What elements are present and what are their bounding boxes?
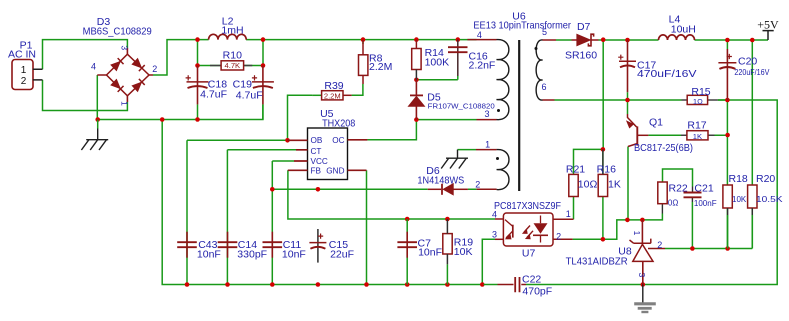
svg-text:D5: D5 bbox=[427, 92, 441, 104]
svg-text:R17: R17 bbox=[687, 119, 706, 131]
aux phase dot bbox=[496, 157, 499, 160]
wire U7 pin2 net jog bbox=[573, 214, 663, 240]
transformer U6 primary winding bbox=[497, 40, 509, 120]
secondary phase dot bbox=[535, 47, 538, 50]
svg-text:VCC: VCC bbox=[311, 157, 328, 166]
transformer U6 aux winding bbox=[497, 150, 509, 190]
svg-text:100nF: 100nF bbox=[694, 199, 717, 208]
svg-text:1: 1 bbox=[566, 209, 571, 219]
optocoupler U7 bbox=[503, 213, 553, 246]
svg-text:1: 1 bbox=[120, 101, 130, 106]
svg-text:1N4148WS: 1N4148WS bbox=[417, 175, 464, 187]
wire left gnd drop to bottom rail bbox=[162, 120, 187, 285]
svg-text:10Ω: 10Ω bbox=[578, 179, 598, 191]
wire A with C43 to bottom rail bbox=[186, 140, 188, 284]
wire P1 pin1 to bridge AC top bbox=[43, 40, 128, 70]
wire C18 branch vertical bbox=[197, 40, 199, 120]
svg-text:220uF/16V: 220uF/16V bbox=[734, 68, 770, 77]
wire VCC stub bbox=[294, 160, 308, 162]
capacitor C19 bbox=[262, 66, 264, 105]
wire FB stub bbox=[288, 169, 308, 171]
wire R8 R39 link bbox=[352, 84, 363, 95]
capacitor C7 bbox=[406, 219, 408, 285]
svg-text:R20: R20 bbox=[756, 173, 775, 185]
wire C20 R18 branch bbox=[726, 40, 728, 249]
wire U5 GND stub bbox=[348, 169, 367, 171]
svg-text:1K: 1K bbox=[693, 132, 702, 141]
svg-text:10K: 10K bbox=[732, 195, 747, 204]
svg-text:OC: OC bbox=[332, 136, 344, 145]
wire C21 bottom bbox=[691, 202, 693, 249]
svg-text:100K: 100K bbox=[425, 56, 450, 68]
resistor R21 bbox=[569, 174, 578, 196]
wire top rail L2 to transformer pin4 bbox=[246, 39, 476, 41]
resistor R10 bbox=[221, 61, 244, 70]
wire R8 top bbox=[362, 40, 364, 44]
wire snubber bottom link bbox=[416, 76, 457, 80]
wire C21 link to R22 bbox=[663, 169, 693, 187]
svg-text:6: 6 bbox=[541, 82, 546, 92]
svg-text:C20: C20 bbox=[738, 56, 757, 68]
resistor R14 bbox=[412, 49, 421, 70]
svg-text:BC817-25(6B): BC817-25(6B) bbox=[634, 142, 693, 154]
capacitor C11 bbox=[271, 232, 273, 258]
svg-text:FB: FB bbox=[311, 167, 322, 176]
wire aux pin1 stub bbox=[458, 149, 477, 151]
wire Q1 base row bbox=[648, 134, 727, 136]
wire CT net bbox=[227, 150, 296, 285]
svg-text:1K: 1K bbox=[608, 179, 621, 191]
resistor R16 bbox=[598, 174, 607, 196]
svg-text:R39: R39 bbox=[324, 80, 343, 92]
resistor R18 bbox=[723, 185, 732, 208]
svg-text:10nF: 10nF bbox=[197, 249, 221, 261]
svg-text:330pF: 330pF bbox=[237, 249, 267, 261]
earth ground primary bbox=[97, 129, 99, 140]
wire pin6 stub bbox=[543, 99, 555, 101]
svg-text:470pF: 470pF bbox=[522, 286, 552, 298]
svg-text:2: 2 bbox=[475, 180, 480, 190]
svg-text:2: 2 bbox=[21, 76, 27, 87]
svg-text:OB: OB bbox=[311, 136, 323, 145]
signal ground bbox=[642, 285, 644, 304]
svg-text:R16: R16 bbox=[597, 163, 616, 175]
svg-text:3: 3 bbox=[637, 272, 647, 277]
op-amp U5 THX208 controller bbox=[308, 128, 348, 180]
svg-text:1: 1 bbox=[21, 65, 27, 76]
resistor R17 bbox=[687, 131, 708, 140]
wire switch node to pin3 bbox=[416, 119, 476, 121]
wire R15 leads bbox=[682, 99, 718, 101]
transistor Q1 bbox=[636, 126, 638, 145]
svg-text:SR160: SR160 bbox=[565, 50, 597, 62]
wire VCC D6 row bbox=[272, 188, 476, 190]
svg-text:4.7K: 4.7K bbox=[224, 61, 240, 70]
wire pin3 stub bbox=[477, 119, 497, 121]
wire U8 ref stub bbox=[651, 248, 665, 250]
svg-text:2.2M: 2.2M bbox=[324, 91, 341, 100]
capacitor C21 bbox=[684, 193, 702, 198]
wire REF row bbox=[665, 248, 752, 250]
capacitor C17 bbox=[627, 40, 629, 92]
svg-text:MB6S_C108829: MB6S_C108829 bbox=[83, 25, 152, 37]
wire U7 pin1 stub bbox=[553, 218, 574, 220]
earth ground aux bbox=[457, 150, 459, 159]
svg-text:4.7uF: 4.7uF bbox=[236, 89, 263, 101]
svg-text:10.5K: 10.5K bbox=[756, 195, 783, 204]
connector P1 bbox=[12, 60, 33, 90]
svg-text:Q1: Q1 bbox=[649, 116, 663, 128]
transformer U6 secondary winding bbox=[536, 40, 542, 100]
svg-text:2.2M: 2.2M bbox=[369, 61, 392, 73]
capacitor C20 bbox=[726, 49, 728, 100]
wire pin5 stub bbox=[543, 39, 557, 41]
svg-text:10nF: 10nF bbox=[282, 249, 306, 261]
svg-text:470uF/16V: 470uF/16V bbox=[637, 68, 697, 80]
wire R20 branch bbox=[751, 40, 753, 249]
svg-text:C21: C21 bbox=[694, 183, 713, 195]
wire R16 bottom bbox=[602, 197, 604, 240]
svg-text:U7: U7 bbox=[522, 248, 536, 260]
wire bottom rail right of C22 bbox=[526, 100, 777, 285]
wire aux pin2 stub bbox=[477, 188, 497, 190]
capacitor C15 bbox=[317, 229, 319, 263]
diode D5 bbox=[415, 80, 417, 120]
wire bottom rail bbox=[187, 284, 484, 286]
wire R10 leads bbox=[198, 65, 264, 67]
svg-text:GND: GND bbox=[326, 167, 344, 176]
capacitor C22 bbox=[484, 284, 498, 286]
wire Q1 collector drop bbox=[627, 147, 629, 220]
wire R18 R20 bottoms bbox=[728, 215, 753, 249]
wire bridge right vertex to top rail bbox=[153, 40, 209, 75]
diode D7 bbox=[572, 39, 578, 41]
inductor L2 bbox=[209, 34, 247, 39]
wire CT stub bbox=[296, 149, 308, 151]
diode D6 bbox=[428, 188, 441, 190]
wire U7 pin1 net R21 riser bbox=[574, 149, 603, 219]
transformer core bbox=[518, 40, 520, 191]
resistor R22 bbox=[658, 182, 667, 204]
wire VCC net bbox=[272, 161, 294, 285]
svg-text:2: 2 bbox=[657, 240, 662, 250]
wire Q1 emitter link bbox=[627, 100, 629, 114]
svg-text:AC IN: AC IN bbox=[8, 48, 36, 60]
svg-text:2: 2 bbox=[152, 64, 157, 74]
svg-text:D7: D7 bbox=[577, 21, 591, 33]
svg-text:4: 4 bbox=[91, 62, 96, 72]
wire C21 leads bbox=[691, 187, 693, 203]
resistor R15 bbox=[687, 95, 707, 104]
svg-text:THX208: THX208 bbox=[322, 117, 355, 129]
svg-text:1: 1 bbox=[632, 231, 642, 236]
svg-text:1Ω: 1Ω bbox=[693, 97, 703, 106]
svg-text:4: 4 bbox=[492, 210, 497, 220]
svg-text:3: 3 bbox=[120, 45, 130, 50]
wire bridge left vertex down bbox=[96, 75, 98, 120]
wire FB net bbox=[288, 170, 495, 219]
svg-text:TL431AIDBZR: TL431AIDBZR bbox=[566, 256, 628, 268]
wire secondary top rail bbox=[556, 39, 768, 41]
wire U7 pin3 net bbox=[482, 239, 495, 284]
junction dots bbox=[95, 117, 100, 122]
svg-text:2: 2 bbox=[556, 232, 561, 242]
svg-text:22uF: 22uF bbox=[330, 249, 354, 261]
bridge rectifier D3 bbox=[126, 48, 128, 102]
wire R22 bottom lead bbox=[661, 204, 663, 214]
svg-text:3: 3 bbox=[484, 109, 489, 119]
svg-text:PC817X3NSZ9F: PC817X3NSZ9F bbox=[494, 200, 561, 212]
svg-text:R21: R21 bbox=[566, 163, 585, 175]
svg-text:10nF: 10nF bbox=[418, 247, 442, 259]
svg-text:5: 5 bbox=[542, 27, 547, 37]
svg-text:1: 1 bbox=[485, 140, 490, 150]
svg-text:+5V: +5V bbox=[757, 18, 779, 32]
wire U7 pin2 stub bbox=[553, 238, 573, 240]
resistor R20 bbox=[748, 185, 757, 208]
svg-text:0Ω: 0Ω bbox=[668, 199, 678, 208]
wire pin4 stub bbox=[467, 39, 496, 41]
svg-text:C22: C22 bbox=[522, 274, 541, 286]
wire OC net bbox=[367, 120, 416, 140]
capacitor C14 bbox=[227, 232, 229, 258]
resistor R8 bbox=[359, 55, 368, 76]
svg-text:R10: R10 bbox=[223, 50, 242, 62]
svg-text:4: 4 bbox=[477, 30, 482, 40]
wire rail1 DC minus bbox=[98, 104, 263, 119]
net flag +5V bbox=[763, 31, 774, 40]
wire R17 leads bbox=[681, 134, 715, 136]
wire U5 GND net bbox=[366, 170, 368, 284]
svg-text:R18: R18 bbox=[729, 173, 748, 185]
wire OB stub bbox=[288, 139, 308, 141]
shunt regulator U8 TL431 bbox=[641, 220, 643, 243]
svg-text:2.2nF: 2.2nF bbox=[469, 60, 496, 72]
wire pin6 row bbox=[555, 99, 728, 101]
primary phase dot bbox=[497, 109, 500, 112]
wire U7 pin3 stub bbox=[495, 238, 503, 240]
wire R39 left lead bbox=[312, 94, 322, 96]
svg-text:1mH: 1mH bbox=[221, 24, 243, 36]
inductor L4 bbox=[659, 35, 695, 40]
resistor R39 bbox=[322, 91, 343, 100]
wire C19 branch vertical bbox=[262, 40, 264, 120]
wire P1 pin2 to bridge AC bottom bbox=[43, 80, 128, 111]
svg-text:10K: 10K bbox=[454, 246, 473, 258]
capacitor C16 bbox=[457, 40, 459, 76]
wire OC stub bbox=[348, 139, 368, 141]
wire D7 net vertical bbox=[602, 40, 604, 175]
svg-text:4.7uF: 4.7uF bbox=[200, 89, 227, 101]
capacitor C43 bbox=[186, 232, 188, 258]
svg-text:10uH: 10uH bbox=[671, 23, 696, 35]
wire OB net bbox=[187, 95, 312, 140]
svg-text:EE13 10pinTransformer: EE13 10pinTransformer bbox=[473, 19, 571, 31]
svg-text:CT: CT bbox=[311, 147, 322, 156]
wire C17 branch bbox=[627, 92, 629, 100]
capacitor C18 bbox=[197, 66, 199, 105]
resistor R19 bbox=[443, 234, 452, 254]
wire U7 pin4 stub bbox=[495, 218, 503, 220]
svg-text:3: 3 bbox=[492, 230, 497, 240]
